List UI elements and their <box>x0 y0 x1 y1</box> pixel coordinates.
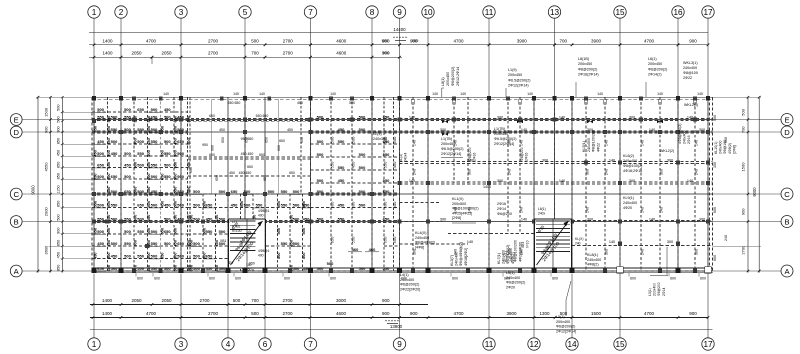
svg-text:500: 500 <box>151 203 158 208</box>
svg-text:850: 850 <box>56 240 60 246</box>
svg-text:550: 550 <box>383 161 388 168</box>
svg-text:600: 600 <box>211 145 215 151</box>
svg-text:240x400: 240x400 <box>587 258 601 262</box>
svg-text:1500: 1500 <box>591 311 602 316</box>
svg-text:600: 600 <box>552 277 558 281</box>
svg-text:500: 500 <box>193 241 200 246</box>
svg-text:140: 140 <box>640 140 644 146</box>
staircase LT1 (grids 4-6) <box>229 219 266 268</box>
svg-text:9: 9 <box>397 8 402 17</box>
leader for L1(9) <box>505 88 507 97</box>
svg-text:WKL3(1): WKL3(1) <box>683 61 698 65</box>
svg-text:500: 500 <box>146 252 151 259</box>
svg-text:650: 650 <box>189 167 193 173</box>
svg-text:650: 650 <box>383 115 390 120</box>
stair2 right label <box>575 237 583 245</box>
grid bubble 9 (top) <box>393 6 405 98</box>
svg-text:850: 850 <box>56 265 60 271</box>
svg-text:Φ8@100(2): Φ8@100(2) <box>623 164 642 168</box>
svg-text:650: 650 <box>289 214 294 221</box>
svg-text:1400: 1400 <box>483 185 491 189</box>
label L8(1) above plan <box>441 67 460 86</box>
svg-text:500: 500 <box>111 139 118 144</box>
svg-text:4Φ8@1: 4Φ8@1 <box>258 249 270 253</box>
svg-text:L8(1): L8(1) <box>441 77 445 86</box>
svg-text:3900: 3900 <box>506 311 517 316</box>
label L1(9) above plan <box>508 68 530 88</box>
top dimension line 3 <box>89 56 402 58</box>
svg-text:h=100: h=100 <box>232 229 242 233</box>
grid bubble 7 (bottom) <box>304 274 316 351</box>
svg-text:140: 140 <box>432 92 438 96</box>
svg-text:650: 650 <box>221 137 225 143</box>
svg-text:550: 550 <box>146 186 151 193</box>
svg-text:240x400: 240x400 <box>623 159 637 163</box>
svg-text:2700: 2700 <box>208 38 219 43</box>
svg-text:17: 17 <box>703 8 713 17</box>
perimeter right edge beam <box>710 97 713 272</box>
grid bubble 8 (top) <box>366 6 378 98</box>
svg-text:300: 300 <box>699 218 705 222</box>
svg-text:550: 550 <box>383 178 390 183</box>
grid bubble 6 (bottom) <box>259 274 271 351</box>
svg-text:500: 500 <box>97 151 104 156</box>
label on grid9 <box>399 153 407 162</box>
grid bubble 16 (top) <box>672 6 684 98</box>
svg-text:500: 500 <box>146 149 151 156</box>
svg-text:450: 450 <box>164 107 171 112</box>
svg-text:500: 500 <box>177 254 184 259</box>
svg-text:240: 240 <box>412 169 416 175</box>
svg-text:2050: 2050 <box>161 51 172 56</box>
svg-text:500: 500 <box>317 266 324 271</box>
label KL6 <box>623 154 642 173</box>
svg-text:C: C <box>784 190 790 199</box>
svg-text:450: 450 <box>159 200 164 207</box>
svg-text:15: 15 <box>615 340 625 349</box>
svg-text:650: 650 <box>124 189 131 194</box>
svg-text:h=10: h=10 <box>525 240 529 248</box>
svg-text:500: 500 <box>97 229 104 234</box>
svg-text:2Φ16: 2Φ16 <box>497 202 506 206</box>
svg-text:500: 500 <box>293 217 300 222</box>
svg-text:240: 240 <box>724 235 728 241</box>
svg-text:240x400: 240x400 <box>506 276 520 280</box>
svg-text:500: 500 <box>293 203 300 208</box>
svg-text:KL5(1): KL5(1) <box>582 141 586 152</box>
svg-text:2Φ22[2Φ20]: 2Φ22[2Φ20] <box>400 287 420 291</box>
svg-text:900: 900 <box>382 311 390 316</box>
svg-text:500: 500 <box>164 115 171 120</box>
right dimension line outer (9000 overall) <box>752 96 761 273</box>
svg-text:Φ6@200(2): Φ6@200(2) <box>400 283 419 287</box>
svg-text:650: 650 <box>330 236 335 243</box>
svg-text:450: 450 <box>164 203 171 208</box>
grid bubble 14 (bottom) <box>566 274 578 351</box>
svg-text:650: 650 <box>279 139 285 143</box>
svg-text:500: 500 <box>177 174 184 179</box>
svg-text:500: 500 <box>392 201 397 208</box>
svg-text:900: 900 <box>43 126 48 133</box>
svg-text:D: D <box>13 128 19 137</box>
svg-text:650: 650 <box>146 137 151 144</box>
svg-text:550: 550 <box>383 152 390 157</box>
svg-text:500: 500 <box>317 115 324 120</box>
svg-text:500: 500 <box>124 174 131 179</box>
beam verticals right half <box>413 97 695 271</box>
stair LT1 annotation blobs <box>228 221 255 266</box>
svg-text:500: 500 <box>359 127 366 132</box>
svg-text:450: 450 <box>229 171 235 175</box>
bottom dimension line 1 <box>90 304 428 306</box>
svg-text:650: 650 <box>246 267 252 271</box>
stair mid label <box>258 249 270 257</box>
svg-text:500: 500 <box>56 105 60 111</box>
horizontal axis lines rows A-E <box>92 120 713 272</box>
beam verticals middle upper <box>211 97 302 194</box>
stair bottom label <box>246 263 252 271</box>
svg-text:5: 5 <box>243 8 248 17</box>
svg-text:500: 500 <box>317 178 324 183</box>
grid bubble 11 (bottom) <box>483 274 495 351</box>
svg-text:500: 500 <box>351 201 356 208</box>
label KL5 rotated <box>582 130 600 152</box>
svg-text:2050: 2050 <box>161 298 172 303</box>
svg-text:550: 550 <box>173 161 178 168</box>
svg-text:Φ6.5@200(2): Φ6.5@200(2) <box>494 137 516 141</box>
svg-text:450: 450 <box>206 217 213 222</box>
svg-text:450 450: 450 450 <box>239 171 252 175</box>
svg-text:450: 450 <box>351 161 356 168</box>
svg-text:240x400: 240x400 <box>400 278 414 282</box>
svg-text:500: 500 <box>359 266 366 271</box>
svg-text:550: 550 <box>151 163 158 168</box>
svg-text:500: 500 <box>97 174 104 179</box>
svg-text:300: 300 <box>467 169 471 175</box>
svg-text:500: 500 <box>219 266 226 271</box>
major grid beams (dashed over axes) <box>94 97 708 271</box>
svg-text:900: 900 <box>689 311 697 316</box>
svg-text:550: 550 <box>111 203 118 208</box>
svg-text:140: 140 <box>609 240 615 244</box>
svg-text:450: 450 <box>289 239 294 246</box>
svg-text:Φ6@100(2): Φ6@100(2) <box>506 245 510 264</box>
svg-text:700: 700 <box>741 126 746 133</box>
svg-text:500: 500 <box>741 108 746 115</box>
svg-text:200x400: 200x400 <box>653 283 657 296</box>
svg-text:7: 7 <box>308 340 313 349</box>
svg-text:600: 600 <box>235 277 241 281</box>
left dimension line middle <box>43 96 51 272</box>
svg-text:500: 500 <box>106 200 111 207</box>
svg-text:600: 600 <box>630 277 636 281</box>
svg-text:4700: 4700 <box>146 311 157 316</box>
svg-text:500: 500 <box>202 252 207 259</box>
svg-text:500: 500 <box>151 127 158 132</box>
svg-text:Φ6@4Φ8(2): Φ6@4Φ8(2) <box>415 241 435 245</box>
svg-text:900: 900 <box>56 126 60 132</box>
svg-text:140: 140 <box>467 240 473 244</box>
svg-text:450: 450 <box>124 163 131 168</box>
svg-text:200x450: 200x450 <box>446 72 450 86</box>
svg-text:700: 700 <box>559 38 567 43</box>
svg-text:1400: 1400 <box>102 298 113 303</box>
svg-text:2Φ22: 2Φ22 <box>683 76 692 80</box>
svg-text:550: 550 <box>206 229 213 234</box>
svg-text:550: 550 <box>338 139 345 144</box>
top dimension values row 1 <box>93 38 710 46</box>
svg-text:600: 600 <box>330 277 336 281</box>
svg-text:140: 140 <box>233 92 239 96</box>
svg-text:500: 500 <box>317 139 324 144</box>
grid bubble 17 (top) <box>702 6 714 98</box>
svg-text:450: 450 <box>338 127 345 132</box>
label KL7 <box>497 245 515 264</box>
svg-text:550: 550 <box>173 264 178 271</box>
svg-text:900: 900 <box>56 228 60 234</box>
svg-text:500: 500 <box>177 203 184 208</box>
edge labels below plan with stubs <box>136 273 706 281</box>
svg-text:B: B <box>14 217 19 226</box>
svg-text:500: 500 <box>137 139 144 144</box>
svg-text:450: 450 <box>173 239 178 246</box>
beam labels right half <box>409 116 705 256</box>
svg-text:850: 850 <box>56 138 60 144</box>
label WKL3 above plan <box>683 61 698 80</box>
svg-text:300: 300 <box>497 116 503 120</box>
svg-text:500: 500 <box>713 115 717 121</box>
svg-text:300: 300 <box>412 249 416 255</box>
svg-text:Φ7: Φ7 <box>228 260 234 265</box>
bottom dimension line 3 <box>90 329 713 331</box>
label L3 lower right <box>648 282 666 296</box>
svg-text:900: 900 <box>410 311 418 316</box>
svg-text:140: 140 <box>659 207 663 213</box>
svg-text:550: 550 <box>124 115 131 120</box>
svg-text:2Φ16(2Φ14): 2Φ16(2Φ14) <box>578 73 599 77</box>
svg-text:600: 600 <box>209 277 215 281</box>
svg-text:500: 500 <box>359 152 366 157</box>
bottom dimension values row 2 <box>92 311 710 319</box>
svg-text:500: 500 <box>97 107 104 112</box>
svg-text:550: 550 <box>164 174 171 179</box>
top dimension line 1 <box>89 32 708 34</box>
svg-text:600: 600 <box>154 277 160 281</box>
svg-text:4Φ25[4Φ25]: 4Φ25[4Φ25] <box>452 211 472 215</box>
svg-text:L5(1): L5(1) <box>506 271 515 275</box>
svg-text:240x400: 240x400 <box>683 66 697 70</box>
svg-text:240x400: 240x400 <box>455 252 459 266</box>
svg-text:E: E <box>14 115 19 124</box>
svg-text:300: 300 <box>694 249 698 255</box>
svg-text:200x500: 200x500 <box>452 202 466 206</box>
svg-text:2Φ16: 2Φ16 <box>472 153 476 161</box>
svg-text:140: 140 <box>409 116 415 120</box>
svg-text:500: 500 <box>106 125 111 132</box>
svg-text:450: 450 <box>214 239 219 246</box>
label WKL2-2 <box>660 149 674 153</box>
svg-text:Φ8@200: Φ8@200 <box>520 147 524 161</box>
svg-text:550: 550 <box>330 161 335 168</box>
svg-text:4550: 4550 <box>43 162 48 172</box>
svg-text:1: 1 <box>92 8 97 17</box>
svg-text:[2Φ8]: [2Φ8] <box>452 216 461 220</box>
svg-text:L1(9): L1(9) <box>508 68 517 72</box>
grid bubble D (right) <box>713 126 794 138</box>
section cut marks <box>442 120 663 136</box>
svg-text:500: 500 <box>164 266 171 271</box>
svg-text:4600: 4600 <box>336 38 347 43</box>
perimeter top edge beam <box>92 97 713 99</box>
label KL3 <box>450 242 468 266</box>
svg-text:9000: 9000 <box>752 187 757 197</box>
svg-text:240x400: 240x400 <box>415 236 429 240</box>
svg-text:650: 650 <box>137 107 144 112</box>
svg-text:650: 650 <box>383 189 390 194</box>
svg-text:500: 500 <box>244 203 251 208</box>
underline KL1(X) <box>452 222 476 224</box>
svg-text:500: 500 <box>111 189 118 194</box>
beam verticals middle lower mesh <box>190 97 303 271</box>
svg-text:KL9(1): KL9(1) <box>623 196 634 200</box>
svg-text:4Φ8@1: 4Φ8@1 <box>258 209 270 213</box>
svg-text:2Φ12[2Φ14]: 2Φ12[2Φ14] <box>441 152 461 156</box>
svg-text:500: 500 <box>173 149 178 156</box>
svg-text:450: 450 <box>231 203 238 208</box>
svg-text:9: 9 <box>397 340 402 349</box>
svg-text:11: 11 <box>485 340 494 349</box>
svg-text:KL3(7): KL3(7) <box>450 255 454 266</box>
svg-text:650: 650 <box>159 173 164 180</box>
grid bubble 1 (top) <box>88 6 100 98</box>
svg-text:550: 550 <box>383 266 390 271</box>
svg-text:500: 500 <box>330 136 335 143</box>
svg-text:2Φ12(2Φ14): 2Φ12(2Φ14) <box>508 84 529 88</box>
svg-text:2700: 2700 <box>282 298 293 303</box>
label rebar set <box>497 202 512 216</box>
svg-text:3000: 3000 <box>336 298 347 303</box>
grid bubble 10 (top) <box>422 6 434 98</box>
svg-text:450: 450 <box>173 137 178 144</box>
svg-text:650: 650 <box>93 125 98 132</box>
svg-text:C: C <box>13 190 19 199</box>
svg-text:650: 650 <box>259 153 265 157</box>
svg-text:300: 300 <box>542 159 548 163</box>
svg-text:500: 500 <box>56 116 60 122</box>
svg-text:4700: 4700 <box>644 311 655 316</box>
svg-text:14400: 14400 <box>393 27 406 32</box>
svg-text:450: 450 <box>146 161 151 168</box>
svg-text:650: 650 <box>106 161 111 168</box>
svg-text:240x: 240x <box>538 211 546 215</box>
svg-text:600: 600 <box>452 277 458 281</box>
bottom overall dimension 13900 with break <box>385 321 403 329</box>
svg-text:17: 17 <box>703 340 713 349</box>
label L1(7B) second <box>494 127 516 146</box>
grid bubble C (left) <box>10 188 92 200</box>
svg-text:Φ8@100/200: Φ8@100/200 <box>592 130 596 152</box>
svg-text:550: 550 <box>97 115 104 120</box>
svg-text:10: 10 <box>423 8 433 17</box>
grid bubble 11 (top) <box>483 6 495 98</box>
svg-text:500: 500 <box>97 203 104 208</box>
right margin small labels <box>713 115 728 261</box>
svg-text:4Φ8(2): 4Φ8(2) <box>511 252 515 264</box>
svg-text:Φ6@200(2): Φ6@200(2) <box>648 67 667 71</box>
svg-text:600: 600 <box>670 277 676 281</box>
svg-text:L1(7B): L1(7B) <box>441 137 452 141</box>
svg-text:140: 140 <box>585 207 589 213</box>
svg-text:XB1: XB1 <box>220 239 227 243</box>
svg-text:600: 600 <box>713 207 717 213</box>
svg-text:L1(7B): L1(7B) <box>494 127 505 131</box>
leader for L8(1B) <box>575 82 577 97</box>
svg-text:500: 500 <box>146 173 151 180</box>
svg-text:13900: 13900 <box>390 324 403 329</box>
svg-text:13: 13 <box>550 8 560 17</box>
svg-text:650: 650 <box>177 139 184 144</box>
svg-text:2700: 2700 <box>208 311 219 316</box>
svg-text:500: 500 <box>276 227 281 234</box>
svg-text:4Φ22: 4Φ22 <box>596 143 600 152</box>
svg-text:XB1: XB1 <box>521 242 525 248</box>
leader for below-plan label <box>566 281 571 316</box>
svg-text:500: 500 <box>124 127 131 132</box>
svg-text:3: 3 <box>179 8 184 17</box>
svg-text:2Φ14: 2Φ14 <box>497 207 506 211</box>
grid bubble 13 (top) <box>548 6 560 98</box>
label KL4 <box>415 231 435 249</box>
svg-text:500: 500 <box>186 186 191 193</box>
leader <box>645 82 647 97</box>
svg-text:PTB1: PTB1 <box>232 225 241 229</box>
right dimension line inner <box>741 96 750 272</box>
perimeter left edge beam <box>91 97 93 272</box>
svg-text:550: 550 <box>124 241 131 246</box>
svg-text:2700: 2700 <box>283 38 294 43</box>
svg-text:14: 14 <box>567 340 577 349</box>
svg-text:900: 900 <box>741 208 746 215</box>
svg-text:1300: 1300 <box>539 311 550 316</box>
svg-text:500: 500 <box>317 152 324 157</box>
svg-text:500: 500 <box>177 151 184 156</box>
svg-text:650: 650 <box>206 203 213 208</box>
svg-text:4Φ8@200(2): 4Φ8@200(2) <box>678 124 682 144</box>
svg-text:150: 150 <box>713 162 717 168</box>
svg-text:15: 15 <box>615 8 625 17</box>
svg-text:500: 500 <box>151 229 158 234</box>
svg-text:1400: 1400 <box>102 51 113 56</box>
svg-text:550: 550 <box>97 217 104 222</box>
label KL10 right margin <box>714 140 736 154</box>
svg-text:KL(X): KL(X) <box>575 237 583 241</box>
svg-text:KL7(1): KL7(1) <box>497 253 501 264</box>
svg-text:300: 300 <box>585 169 589 175</box>
svg-text:240: 240 <box>640 249 644 255</box>
label L4 below grid 9 <box>400 273 420 291</box>
svg-text:9000: 9000 <box>31 185 36 195</box>
svg-text:300: 300 <box>667 240 673 244</box>
svg-text:300: 300 <box>497 179 503 183</box>
svg-text:550: 550 <box>146 214 151 221</box>
beam size labels middle lower mesh <box>189 189 312 271</box>
svg-text:4Φ18;2Φ16: 4Φ18;2Φ16 <box>623 169 642 173</box>
svg-text:140: 140 <box>460 92 466 96</box>
svg-text:L5(1): L5(1) <box>556 315 565 319</box>
leader for L3 <box>650 247 668 276</box>
label WKL2 <box>684 103 698 107</box>
svg-text:550: 550 <box>137 254 144 259</box>
